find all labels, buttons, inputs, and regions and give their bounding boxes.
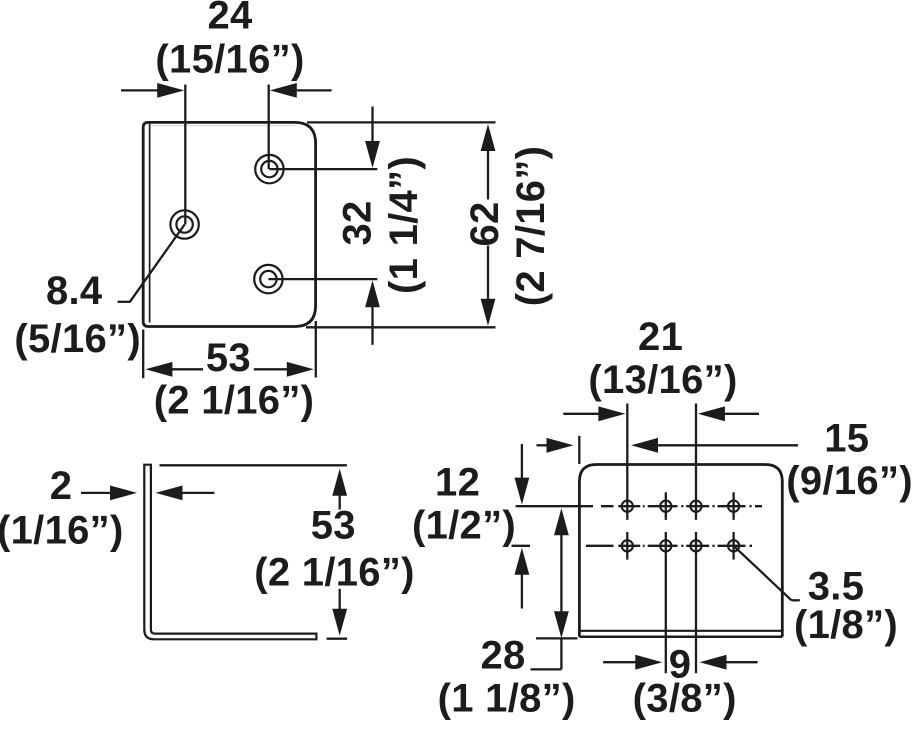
- dim 9: left arrow shaft: [603, 661, 637, 663]
- VIEW C: col4 row1 tick: [732, 492, 734, 520]
- dim 28: bottom extension tick: [536, 637, 578, 639]
- dim 28: upper arrowhead (up): [554, 508, 569, 535]
- dim 15: right arrow shaft: [658, 444, 799, 446]
- dim 32: upper shaft: [371, 107, 373, 142]
- VIEW C: hole r1c3: [690, 501, 701, 512]
- dim 12: upper shaft: [521, 444, 523, 479]
- VIEW C: col3 extension line through hole: [695, 404, 697, 520]
- dim 53B: bottom extension tick: [327, 638, 348, 640]
- VIEW A: inner bend line: [149, 124, 151, 323]
- dim 53A: right shaft: [254, 368, 287, 370]
- dim 28: lower arrowhead (down): [554, 611, 569, 638]
- svg-text:53: 53: [206, 336, 251, 380]
- VIEW A: hole left outer: [170, 210, 198, 238]
- dim 21: left arrowhead: [598, 406, 625, 421]
- dim 2: left arrow shaft: [81, 492, 111, 494]
- svg-text:(1/2”): (1/2”): [412, 504, 516, 548]
- dim 15: left extension line: [578, 436, 580, 464]
- svg-text:21: 21: [638, 315, 683, 359]
- dim 53A: left shaft: [172, 368, 203, 370]
- dim 15: left arrowhead: [547, 438, 574, 453]
- dim 24: left arrowhead: [157, 83, 184, 98]
- dim 53B: upper arrowhead (up): [332, 469, 347, 496]
- dim 21: left arrow shaft: [563, 413, 600, 415]
- dim 9: right arrowhead: [700, 655, 727, 670]
- dim 24: left arrow shaft: [121, 89, 158, 91]
- svg-text:8.4: 8.4: [46, 269, 103, 313]
- dim 28: shaft: [560, 535, 562, 613]
- VIEW C: col3 extension line down: [695, 532, 697, 673]
- svg-text:15: 15: [824, 417, 869, 461]
- VIEW C: hole r2c1: [622, 540, 633, 551]
- VIEW C: hole r1c1: [622, 501, 633, 512]
- VIEW C: col2 row1 tick: [665, 492, 667, 520]
- VIEW C: bottom inner edge: [581, 630, 781, 632]
- svg-text:(15/16”): (15/16”): [155, 38, 304, 82]
- svg-text:(2 1/16”): (2 1/16”): [254, 550, 415, 594]
- dim 62: lower arrowhead (down): [481, 299, 496, 326]
- dim 62: upper shaft: [487, 151, 489, 200]
- dim 53A: right extension line: [315, 321, 317, 378]
- VIEW A: hole top inner: [261, 161, 277, 177]
- VIEW C: col4 row2 tick: [732, 532, 734, 560]
- dim 62: bottom extension line: [306, 326, 496, 328]
- dim 32: upper arrowhead (down): [365, 141, 380, 168]
- svg-text:(9/16”): (9/16”): [786, 459, 913, 503]
- leader 3.5: tick: [792, 599, 800, 601]
- svg-text:32: 32: [336, 200, 380, 245]
- svg-text:(1/16”): (1/16”): [0, 508, 124, 552]
- VIEW C: hole r2c2: [660, 540, 671, 551]
- svg-text:53: 53: [311, 504, 356, 548]
- VIEW C: plate outline: [579, 465, 782, 637]
- VIEW C: col1 row2 tick: [626, 532, 628, 560]
- svg-text:62: 62: [463, 201, 507, 246]
- VIEW C: hole r2c4: [728, 540, 739, 551]
- dim 12: lower arrowhead (up): [515, 548, 530, 575]
- VIEW C: col2 extension line down: [665, 532, 667, 673]
- dim 32: lower arrowhead (up): [365, 280, 380, 307]
- dim 62: lower shaft: [487, 246, 489, 300]
- VIEW C: hole r1c2: [660, 501, 671, 512]
- dim 15: left arrow shaft: [537, 444, 549, 446]
- svg-text:(1 1/8”): (1 1/8”): [438, 677, 576, 721]
- dim 24: left extension line: [184, 85, 186, 225]
- VIEW C: hole r1c4: [728, 501, 739, 512]
- dim 9: right arrow shaft: [726, 661, 758, 663]
- leader 8.4: diagonal: [130, 225, 185, 302]
- dim 2: right arrowhead: [156, 486, 183, 501]
- leader 3.5: diagonal: [734, 546, 792, 601]
- svg-text:(2 1/16”): (2 1/16”): [154, 378, 315, 422]
- dim 32: lower shaft: [371, 307, 373, 345]
- dim 2: left arrowhead: [110, 486, 137, 501]
- dim 24: right arrowhead: [270, 83, 297, 98]
- dim 9: left arrowhead: [635, 655, 662, 670]
- VIEW B: L-profile outline: [144, 465, 316, 640]
- svg-text:(13/16”): (13/16”): [588, 358, 737, 402]
- dim 53B: upper shaft: [339, 495, 341, 509]
- VIEW C: centerline row 2: [512, 545, 753, 547]
- dim 28: leader horizontal: [531, 668, 562, 670]
- dim 24: right extension line: [268, 85, 270, 170]
- VIEW A: faint inner top line: [151, 125, 296, 127]
- dim 53A: left arrowhead: [145, 362, 172, 377]
- dim 53A: left extension line: [142, 330, 144, 379]
- VIEW A: hole top outer: [255, 155, 283, 183]
- dim 53B: lower arrowhead (down): [332, 609, 347, 636]
- VIEW A: front plate outline: [143, 122, 315, 326]
- dim 53B: lower shaft: [339, 589, 341, 610]
- VIEW C: col1 extension line through hole: [626, 404, 628, 520]
- VIEW C: hole r2c3: [690, 540, 701, 551]
- svg-text:3.5: 3.5: [808, 565, 865, 609]
- dim 53A: right arrowhead: [287, 362, 314, 377]
- svg-text:(1/8”): (1/8”): [794, 603, 898, 647]
- svg-text:12: 12: [435, 461, 480, 505]
- VIEW A: hole bottom outer: [254, 265, 282, 293]
- svg-text:2: 2: [50, 464, 73, 508]
- dim 32: top hole line: [269, 168, 377, 170]
- VIEW A: hole left inner: [176, 216, 192, 232]
- svg-text:28: 28: [480, 634, 525, 678]
- dim 21: right arrow shaft: [724, 413, 759, 415]
- VIEW B: top extension line: [160, 464, 347, 466]
- svg-text:(3/8”): (3/8”): [633, 677, 737, 721]
- leader 8.4: tick: [118, 301, 131, 303]
- svg-text:24: 24: [207, 0, 253, 38]
- dim 62: upper arrowhead (up): [481, 124, 496, 151]
- svg-text:(1 1/4”): (1 1/4”): [382, 156, 426, 294]
- dim 32: bottom hole line: [268, 278, 377, 280]
- VIEW C: centerline row 1: [516, 505, 762, 507]
- dim 2: right arrow shaft: [182, 492, 214, 494]
- svg-text:(5/16”): (5/16”): [14, 317, 141, 361]
- svg-text:(2 7/16”): (2 7/16”): [509, 146, 553, 307]
- dim 15: right arrowhead: [631, 438, 658, 453]
- dim 12: lower shaft: [521, 574, 523, 608]
- dim 62: top extension line: [307, 121, 496, 123]
- dim 12: upper arrowhead (down): [515, 478, 530, 505]
- VIEW A: hole bottom inner: [260, 271, 276, 287]
- dim 21: right arrowhead: [698, 406, 725, 421]
- dim 24: right arrow shaft: [297, 89, 332, 91]
- dim 28: leader vertical: [560, 638, 562, 669]
- VIEW C: bottom outer edge: [579, 636, 782, 639]
